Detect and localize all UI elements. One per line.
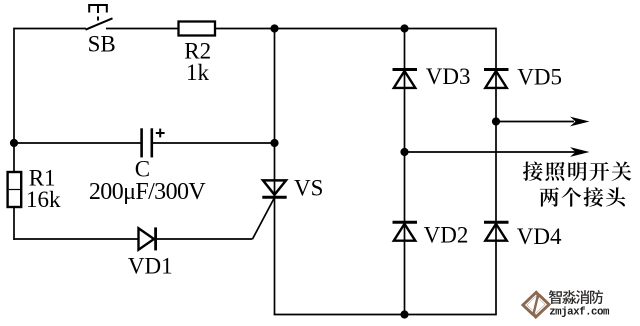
svg-text:VD5: VD5	[517, 65, 562, 90]
wire capacitor row right	[153, 142, 275, 144]
wire left vertical upper (x=14)	[13, 28, 15, 172]
wire arrow line lower	[405, 151, 577, 153]
node bottom junction	[400, 310, 408, 318]
node bridge mid-right junction	[492, 117, 500, 125]
thyristor VS	[262, 180, 286, 197]
wire thyristor gate diagonal	[253, 199, 275, 240]
wire R2 to top-right corner	[215, 28, 496, 30]
resistor R2	[179, 22, 216, 36]
logo watermark icon	[524, 293, 548, 316]
arrowhead lower output	[570, 147, 590, 157]
logo watermark text	[549, 290, 603, 304]
node top junction at x=404	[400, 24, 408, 32]
svg-text:VD3: VD3	[426, 64, 471, 89]
diode VD5	[484, 70, 509, 88]
wire left vertical lower (x=14)	[13, 207, 15, 240]
wire arrow line upper	[496, 121, 574, 123]
diode VD1	[139, 227, 156, 250]
svg-text:1k: 1k	[186, 60, 210, 85]
svg-text:16k: 16k	[26, 187, 61, 212]
svg-text:C: C	[135, 156, 150, 181]
diode VD3	[393, 70, 418, 88]
wire SB to R2	[106, 28, 179, 30]
wire center vertical (x=274.5)	[274, 29, 276, 315]
svg-text:VS: VS	[294, 175, 323, 200]
svg-text:VD4: VD4	[517, 224, 562, 249]
wire bottom row center (y=314.5)	[274, 314, 496, 316]
label annotation line1 (connect to lighting switch)	[523, 161, 631, 180]
node top junction at x=274	[270, 24, 278, 32]
diode VD2	[393, 222, 418, 240]
resistor R1	[8, 172, 22, 207]
wire VD1 to gate bend	[156, 238, 253, 240]
svg-text:VD1: VD1	[128, 253, 173, 278]
wire top-left segment to SB	[14, 28, 86, 30]
diode VD4	[484, 222, 509, 240]
svg-text:zmjaxf.com: zmjaxf.com	[549, 306, 610, 318]
capacitor plus polarity mark	[156, 129, 165, 138]
node cap-left junction	[10, 139, 18, 147]
wire capacitor row left	[14, 142, 141, 144]
node bridge mid-left junction	[400, 148, 408, 156]
svg-text:VD2: VD2	[424, 223, 469, 248]
svg-text:SB: SB	[88, 32, 116, 57]
wire bottom-left row to VD1	[13, 238, 138, 240]
wire bridge vertical right (x=496)	[495, 28, 497, 316]
node cap-right junction	[270, 139, 278, 147]
switch SB push-button	[86, 4, 113, 30]
arrowhead upper output	[570, 117, 590, 127]
svg-text:200μF/300V: 200μF/300V	[89, 179, 206, 205]
capacitor C	[142, 128, 152, 157]
label annotation line2 (two terminals)	[540, 187, 626, 206]
wire bridge vertical left (x=404.5)	[404, 29, 406, 315]
